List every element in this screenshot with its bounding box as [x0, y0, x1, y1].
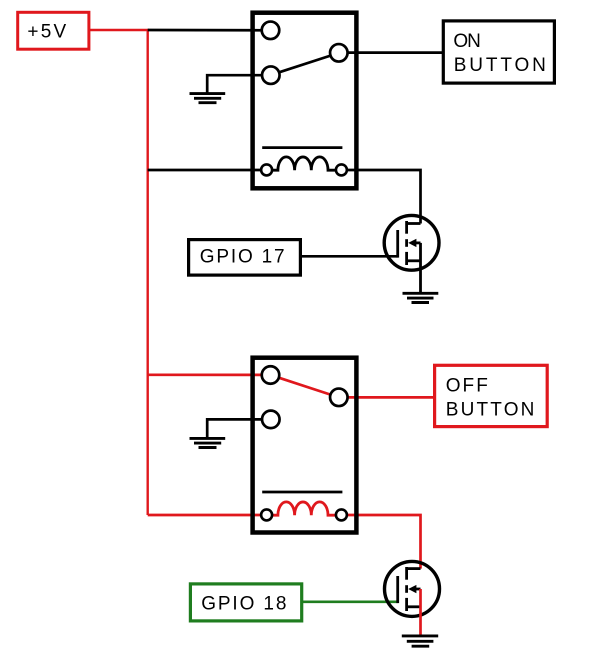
relay K2 pin 2 contact [262, 411, 280, 429]
ground GND3 [190, 438, 226, 447]
relay K2 box [253, 358, 357, 533]
ground GND4 [402, 636, 438, 646]
svg-text:GPIO 18: GPIO 18 [201, 594, 286, 615]
wire GPIO 18 to Q2 gate (green) [303, 600, 398, 603]
relay K2 switch blade (red) [279, 378, 331, 395]
wire relay K1 common to ON BUTTON [339, 51, 442, 54]
wire trunk to relay K1 coil (black) [148, 169, 267, 172]
Q1 source lead down [419, 243, 422, 293]
wire +5V to trunk (red) [89, 29, 149, 32]
svg-text:+5V: +5V [27, 21, 66, 42]
Q1 gate bar [396, 230, 399, 258]
relay K2 pin 1 contact [262, 366, 280, 384]
wire GPIO 17 to Q1 gate [302, 255, 398, 258]
wire ground GND3 to relay K2 pin 2 [207, 419, 271, 437]
relay K1 pin 1 contact [262, 22, 280, 40]
wire relay K2 coil to Q2 drain (red) [341, 515, 420, 569]
relay K2 coil terminal left [261, 509, 272, 520]
GPIO 17 box [189, 240, 301, 276]
svg-text:OFF: OFF [446, 375, 488, 396]
wire relay K1 coil to Q1 drain [341, 170, 420, 224]
OFF BUTTON box [435, 365, 548, 426]
svg-text:GPIO 17: GPIO 17 [200, 247, 285, 268]
wire Q2 source to ground (red) [419, 589, 422, 636]
relay K1 box [253, 13, 357, 189]
Q2 body diode arrow [408, 585, 416, 593]
wire trunk to relay K2 coil (red) [148, 514, 267, 517]
GPIO 18 box [190, 584, 301, 621]
relay K1 pin 2 contact [262, 66, 280, 84]
relay K1 coil terminal left [261, 164, 272, 175]
Q2 gate bar [396, 576, 399, 603]
Q2 channel dashes [405, 567, 408, 580]
wire red trunk vertical [146, 30, 148, 515]
relay K1 coil terminal right [336, 164, 347, 175]
Q2 drain tap [407, 567, 421, 570]
ground GND2 [403, 293, 439, 302]
wire trunk to relay K1 pin 1 (black) [148, 29, 267, 32]
wire trunk to relay K2 pin 1 (red) [148, 373, 267, 376]
MOSFET Q1 [384, 215, 439, 292]
ON BUTTON box [443, 21, 554, 83]
relay K1 common contact [330, 44, 348, 62]
relay K2 common contact [330, 389, 348, 407]
relay K1 coil bar [262, 146, 342, 149]
relay K1 switch blade [279, 56, 330, 73]
svg-text:ON: ON [453, 31, 480, 52]
Q1 body diode arrow [408, 239, 416, 247]
Q1 channel dashes [405, 221, 408, 234]
Q1 drain tap [407, 222, 421, 225]
relay K1 coil winding [272, 157, 336, 170]
Q1 body circle [384, 215, 439, 270]
relay K2 coil winding (red) [272, 502, 336, 515]
ground GND1 [190, 94, 226, 103]
relay K2 coil bar [262, 491, 342, 494]
+5V box [18, 12, 89, 49]
Q2 body circle [385, 561, 440, 616]
MOSFET Q2 [385, 561, 440, 616]
relay K2 coil terminal right [336, 509, 347, 520]
Q2 source tap [407, 605, 421, 608]
wire ground GND1 to relay K1 pin 2 [207, 75, 271, 93]
wire relay K2 common to OFF BUTTON (red) [339, 396, 433, 399]
Q1 source tap [407, 259, 421, 262]
